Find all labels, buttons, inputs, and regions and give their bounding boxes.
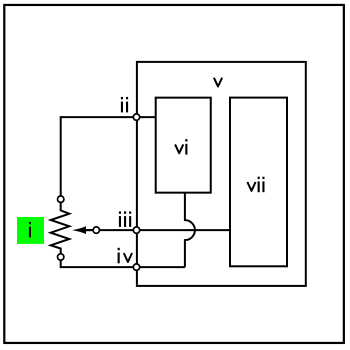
potentiometer bottom terminal (58, 254, 64, 260)
wire: wiper through node iii to block vii left edge (84, 229, 230, 231)
wire: potentiometer top terminal up and right to node ii (61, 117, 137, 199)
node iv (118, 248, 140, 270)
potentiometer i : resistor zigzag (51, 203, 70, 254)
node ii (121, 97, 140, 120)
block vii (230, 98, 287, 267)
wire: potentiometer bottom terminal down and right to node iv (61, 257, 137, 267)
block v (137, 62, 306, 286)
wire: riser from block vi bottom with hop over iii wire (185, 193, 195, 267)
block vi (156, 98, 211, 193)
potentiometer i : green value label box (17, 217, 44, 244)
wire: node iv right to vertical riser (137, 266, 185, 268)
wire: node ii stub right to block vi left edge (137, 116, 156, 118)
node iii (119, 211, 140, 233)
potentiometer wiper terminal (93, 227, 99, 233)
potentiometer i : wiper arrow (72, 226, 93, 234)
potentiometer top terminal (58, 196, 64, 202)
